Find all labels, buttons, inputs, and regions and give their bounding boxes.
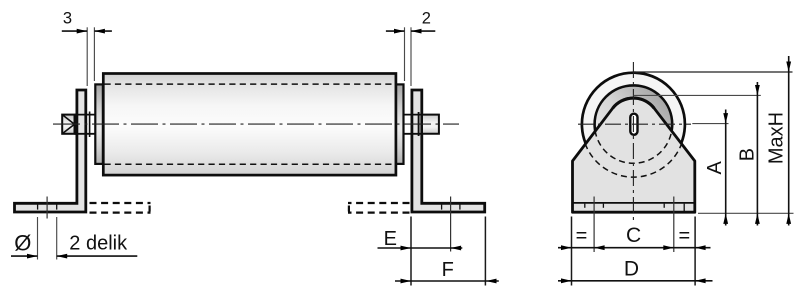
axle left square-end box xyxy=(62,115,74,134)
dim diameter / 2 delik xyxy=(11,255,38,257)
end bracket top arc (thick) xyxy=(613,98,654,108)
slot hole xyxy=(630,114,637,135)
dim F xyxy=(395,280,499,282)
right foot hole edges xyxy=(441,204,443,210)
svg-text:F: F xyxy=(442,259,454,281)
svg-text:B: B xyxy=(737,148,759,161)
left foot hole edges xyxy=(37,204,39,210)
dashed alternate foot (left bracket, mirrored) xyxy=(90,202,151,204)
base hole centerlines (C ext) xyxy=(593,197,595,253)
axle left washer line xyxy=(89,112,91,138)
axle right washer line xyxy=(418,112,420,136)
svg-text:2 delik: 2 delik xyxy=(69,233,128,255)
dim B xyxy=(756,82,758,226)
dim A xyxy=(725,110,727,226)
dim MaxH ext line xyxy=(633,71,792,73)
dim 3 ext lines xyxy=(86,27,88,86)
svg-text:3: 3 xyxy=(63,10,72,28)
bracket left (L-shape) xyxy=(15,90,86,212)
dim =/C/= line xyxy=(558,247,711,249)
svg-text:E: E xyxy=(384,228,397,250)
dashed alternate foot (right bracket, mirrored) xyxy=(348,202,410,204)
roller outer circle xyxy=(582,73,685,176)
svg-text:A: A xyxy=(704,160,726,174)
end bracket base line xyxy=(573,202,695,204)
bracket right (L-shape) xyxy=(412,90,485,212)
dim A ext line xyxy=(692,123,728,125)
end view vertical centerline xyxy=(632,62,634,220)
base strip hole ticks xyxy=(584,204,586,208)
end bracket body xyxy=(573,98,695,212)
hidden arc mid xyxy=(595,131,672,164)
svg-text:D: D xyxy=(624,258,639,281)
svg-text:2: 2 xyxy=(422,10,431,28)
dim B ext line xyxy=(634,94,761,96)
svg-text:=: = xyxy=(678,225,690,247)
dim D xyxy=(558,280,713,282)
right foot hole centerline (extends to E dim) xyxy=(450,197,452,252)
hidden arc outer xyxy=(585,144,682,178)
axle right shaft xyxy=(423,114,439,135)
dim 2 ext lines xyxy=(404,27,406,81)
dim E ext lines xyxy=(410,217,412,286)
dim 2 xyxy=(386,30,405,32)
left foot hole centerline xyxy=(46,197,48,219)
dim 3 xyxy=(62,30,87,32)
roller hidden line bottom xyxy=(105,163,395,165)
roller left end cap xyxy=(95,84,103,163)
roller right end cap xyxy=(396,84,404,163)
bottom ext line for A/B/MaxH xyxy=(698,212,794,214)
dim E xyxy=(378,247,463,249)
svg-text:Ø: Ø xyxy=(14,231,31,256)
dim MaxH xyxy=(788,56,790,226)
roller tube circle xyxy=(595,85,673,163)
roller centerline xyxy=(53,123,459,125)
dim F ext line right xyxy=(484,217,486,286)
roller hidden line top xyxy=(105,83,395,85)
dim D ext lines xyxy=(571,217,573,286)
svg-text:=: = xyxy=(576,225,588,247)
end view horizontal centerline xyxy=(578,123,691,125)
dim diameter ext lines xyxy=(37,217,39,260)
svg-text:MaxH: MaxH xyxy=(765,112,787,164)
roller body xyxy=(103,74,396,176)
axle left shaft lines through bracket xyxy=(75,114,96,116)
svg-text:C: C xyxy=(626,224,641,247)
